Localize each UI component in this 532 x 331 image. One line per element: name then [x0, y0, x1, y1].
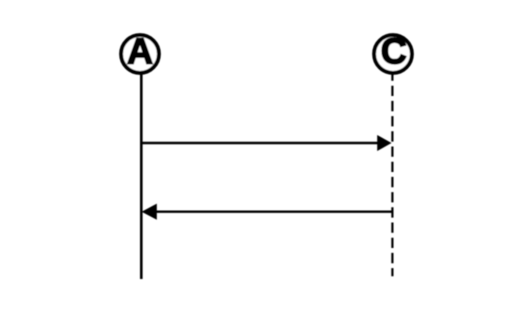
svg-text:C: C — [381, 31, 407, 72]
svg-text:A: A — [127, 31, 153, 72]
